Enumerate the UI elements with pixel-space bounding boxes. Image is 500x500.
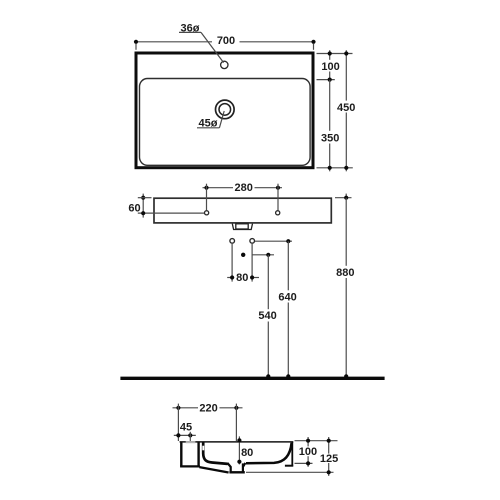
dim 220	[173, 407, 199, 409]
mounting hole left	[205, 211, 209, 215]
ext line top (side right)	[295, 440, 338, 442]
extension line bottom right	[317, 167, 353, 169]
dim 100 (side)	[307, 437, 309, 446]
extension line top right	[317, 53, 353, 55]
bottom right edge	[285, 465, 293, 467]
supply hole right	[250, 239, 255, 244]
faucet hole	[221, 61, 228, 68]
dim 540	[267, 255, 269, 309]
dim 80 (front)	[227, 277, 234, 279]
mounting hole right	[276, 211, 280, 215]
front interior line	[138, 212, 205, 214]
ext line bottom (side right)	[246, 471, 334, 473]
dim 80 (side)	[238, 436, 240, 464]
svg-text:125: 125	[320, 453, 338, 465]
floor line	[120, 377, 384, 380]
basin front outline	[154, 198, 331, 223]
svg-text:540: 540	[258, 310, 276, 322]
connector to 540	[252, 254, 274, 256]
dim 880	[335, 197, 352, 199]
drain hole (top view)	[216, 100, 235, 119]
dim 100 (top view right)	[329, 50, 331, 60]
ext line mid (side right)	[295, 462, 313, 464]
supply hole left	[230, 239, 235, 244]
dim 450 (top view right)	[345, 50, 347, 100]
dim 640	[287, 241, 289, 290]
basin wall band (left)	[203, 442, 227, 464]
dim 700	[136, 41, 212, 43]
bowl band (right)	[246, 443, 292, 464]
connector to 640	[255, 240, 292, 242]
svg-text:640: 640	[278, 292, 296, 304]
drain outlet dot	[241, 253, 245, 257]
drain boss (front view)	[232, 224, 252, 230]
svg-text:60: 60	[128, 202, 140, 214]
overflow slot	[202, 446, 204, 451]
svg-text:350: 350	[321, 132, 339, 144]
underside diagonal	[199, 467, 228, 472]
basin outer rim (top view)	[136, 53, 313, 168]
wall bracket	[180, 443, 182, 467]
extension line mid right	[317, 79, 335, 81]
rim top line (side view)	[180, 441, 294, 443]
basin inner bowl (top view)	[140, 79, 311, 166]
drain trap box	[229, 464, 244, 472]
svg-text:280: 280	[235, 182, 253, 194]
svg-text:220: 220	[199, 402, 217, 414]
svg-text:80: 80	[236, 272, 248, 284]
svg-text:100: 100	[321, 61, 339, 73]
dim 60	[142, 194, 144, 218]
svg-text:80: 80	[241, 447, 253, 459]
floor dots	[266, 374, 270, 378]
svg-text:100: 100	[299, 446, 317, 458]
svg-text:880: 880	[336, 267, 354, 279]
verticals to 80 dim	[231, 244, 233, 282]
svg-text:700: 700	[217, 35, 235, 47]
outer right edge	[291, 442, 293, 467]
dim 350 (top view right)	[329, 80, 331, 131]
svg-text:450: 450	[337, 102, 355, 114]
svg-text:45: 45	[180, 421, 192, 433]
dim 125 (side)	[328, 437, 330, 454]
dim 280	[203, 187, 234, 189]
